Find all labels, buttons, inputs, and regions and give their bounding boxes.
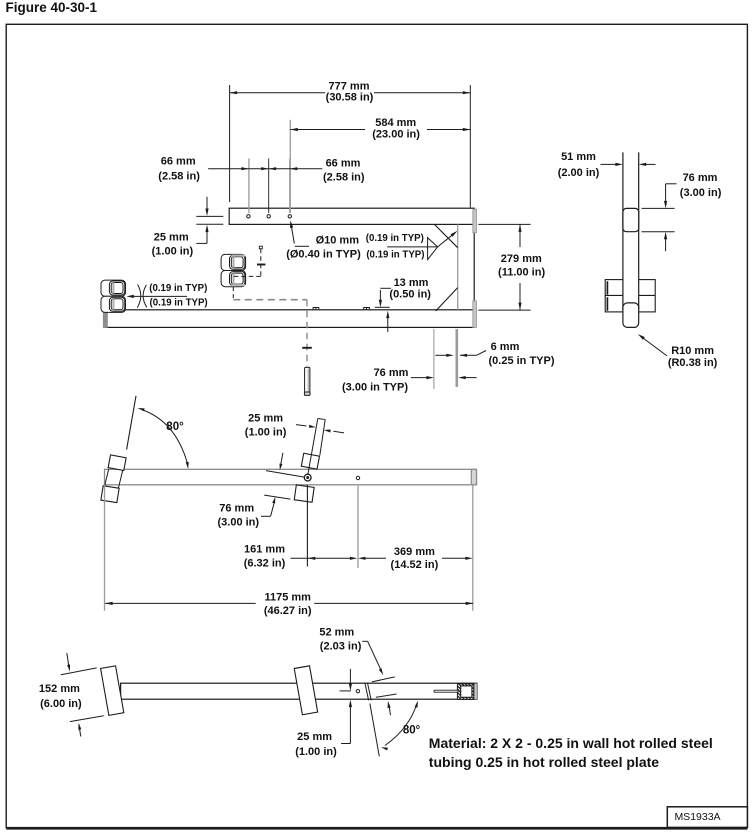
svg-text:161 mm: 161 mm [244,544,285,556]
svg-text:80°: 80° [166,421,184,433]
svg-text:25 mm: 25 mm [297,731,332,743]
svg-text:(R0.38 in): (R0.38 in) [668,357,718,369]
svg-text:(11.00 in): (11.00 in) [498,267,545,279]
svg-text:(6.00 in): (6.00 in) [40,698,82,710]
svg-text:Figure 40-30-1: Figure 40-30-1 [6,0,98,15]
svg-text:(1.00 in): (1.00 in) [245,426,287,438]
svg-text:(46.27 in): (46.27 in) [264,605,312,617]
svg-text:(0.50 in): (0.50 in) [389,288,431,300]
svg-text:(1.00 in): (1.00 in) [295,746,337,758]
svg-text:(6.32 in): (6.32 in) [244,557,286,569]
svg-text:(3.00 in TYP): (3.00 in TYP) [342,381,408,393]
svg-text:52 mm: 52 mm [319,626,354,638]
svg-text:(0.19 in TYP): (0.19 in TYP) [366,233,424,244]
svg-text:80°: 80° [403,725,421,737]
svg-text:152 mm: 152 mm [39,683,80,695]
svg-text:13 mm: 13 mm [394,277,429,289]
svg-text:(23.00 in): (23.00 in) [372,129,420,141]
svg-text:(1.00 in): (1.00 in) [152,245,194,257]
svg-text:(3.00 in): (3.00 in) [680,187,722,199]
svg-text:MS1933A: MS1933A [674,811,720,823]
svg-text:(0.19 in TYP): (0.19 in TYP) [150,297,208,308]
svg-text:(2.58 in): (2.58 in) [323,171,365,183]
svg-text:(Ø0.40 in TYP): (Ø0.40 in TYP) [286,249,361,261]
svg-text:(0.25 in TYP): (0.25 in TYP) [488,355,554,367]
svg-text:R10 mm: R10 mm [671,345,714,357]
svg-text:369 mm: 369 mm [394,546,435,558]
svg-text:(30.58 in): (30.58 in) [326,92,374,104]
svg-text:584 mm: 584 mm [375,117,416,129]
svg-text:279 mm: 279 mm [501,253,542,265]
svg-text:76 mm: 76 mm [374,367,409,379]
svg-text:66 mm: 66 mm [161,156,196,168]
svg-text:(2.00 in): (2.00 in) [558,167,600,179]
svg-text:Ø10 mm: Ø10 mm [316,234,360,246]
svg-text:76 mm: 76 mm [219,503,254,515]
svg-text:25 mm: 25 mm [154,231,189,243]
svg-text:51 mm: 51 mm [561,151,596,163]
svg-text:(14.52 in): (14.52 in) [391,559,439,571]
svg-text:6 mm: 6 mm [491,341,520,353]
svg-text:25 mm: 25 mm [248,412,283,424]
svg-text:1175 mm: 1175 mm [264,591,311,603]
svg-text:tubing 0.25 in hot rolled stee: tubing 0.25 in hot rolled steel plate [429,754,659,770]
svg-text:Material: 2 X 2 - 0.25 in wall: Material: 2 X 2 - 0.25 in wall hot rolle… [429,735,713,751]
svg-text:(2.03 in): (2.03 in) [320,640,362,652]
svg-text:(2.58 in): (2.58 in) [158,170,200,182]
svg-text:(3.00 in): (3.00 in) [218,516,260,528]
svg-text:(0.19 in TYP): (0.19 in TYP) [366,250,424,261]
svg-text:777 mm: 777 mm [329,80,370,92]
svg-text:(0.19 in TYP): (0.19 in TYP) [149,283,207,294]
svg-text:66 mm: 66 mm [326,158,361,170]
svg-text:76 mm: 76 mm [683,172,718,184]
